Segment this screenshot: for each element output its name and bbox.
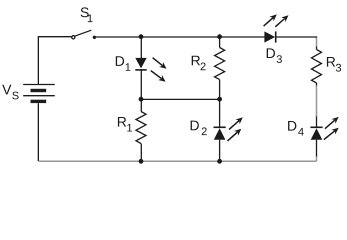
LED D4 light arrow 2 [324, 131, 335, 140]
LED D4 cathode bar [310, 127, 322, 129]
LED D3 light arrow 1 [264, 18, 274, 26]
LED D2 triangle (pointing up) [214, 128, 226, 140]
LED D3 triangle (pointing right) [264, 31, 275, 42]
label S1 [81, 7, 93, 22]
junction dot top of D1 branch [139, 34, 144, 39]
wire R2 leads [219, 37, 221, 99]
wire grey D4 to bottom-right corner [316, 157, 318, 162]
battery VS plate short thick 2 [31, 100, 47, 103]
wire D1 branch vertical [140, 37, 142, 99]
LED D2 light arrow 2 [228, 132, 238, 141]
wire R1 leads [140, 99, 142, 161]
wire middle horizontal node to node [141, 98, 220, 100]
battery VS plate long top [23, 84, 55, 86]
label R2 [192, 56, 206, 70]
label R3 [327, 57, 341, 72]
wire top from left corner to switch [38, 36, 72, 38]
junction dot bottom of D2 [217, 159, 222, 164]
LED D3 cathode bar [275, 31, 277, 42]
wire D2 branch vertical [219, 99, 221, 161]
wire top from switch to D3 anode [96, 36, 265, 38]
label VS [2, 85, 18, 100]
LED D1 light arrow 2 [151, 71, 162, 79]
resistor R2 zigzag [215, 48, 225, 80]
LED D3 light arrow 2 [275, 19, 284, 27]
label D4 [288, 121, 304, 136]
switch S1 right contact dot [93, 36, 96, 39]
LED D2 light arrow 1 [229, 121, 239, 130]
label D2 [191, 121, 207, 136]
resistor R1 zigzag [136, 112, 146, 144]
battery VS plate short thick 1 [31, 89, 47, 92]
junction dot top of R2 [217, 34, 222, 39]
LED D4 light arrow 1 [325, 120, 335, 129]
LED D1 triangle (pointing down) [135, 58, 146, 69]
wire top from D3 cathode to top-right corner [276, 37, 317, 38]
wire R3 bottom lead black part [316, 83, 318, 86]
label R1 [118, 117, 132, 132]
wire left vertical (battery to top-left corner and bottom-left corner) [37, 37, 39, 162]
wire grey right vertical corner-to-R3 [316, 38, 318, 47]
label D3 [267, 48, 282, 63]
switch S1 left contact circle [72, 36, 75, 39]
wire D4 leads black [316, 116, 318, 157]
junction dot bottom of R1 [139, 159, 144, 164]
wire grey R3-to-D4 [316, 86, 318, 117]
battery VS plate long middle [23, 95, 55, 97]
label D1 [116, 56, 131, 71]
LED D2 cathode bar [214, 127, 226, 129]
resistor R3 zigzag [312, 50, 322, 84]
junction dot middle wire right [217, 97, 222, 102]
wire grey bottom horizontal [39, 160, 317, 162]
LED D1 light arrow 1 [153, 58, 163, 66]
wire R3 top lead black part [316, 46, 318, 50]
switch S1 lever [75, 30, 92, 36]
junction dot middle wire left [139, 97, 144, 102]
LED D4 triangle (pointing up) [311, 128, 323, 140]
LED D1 cathode bar [135, 69, 146, 71]
